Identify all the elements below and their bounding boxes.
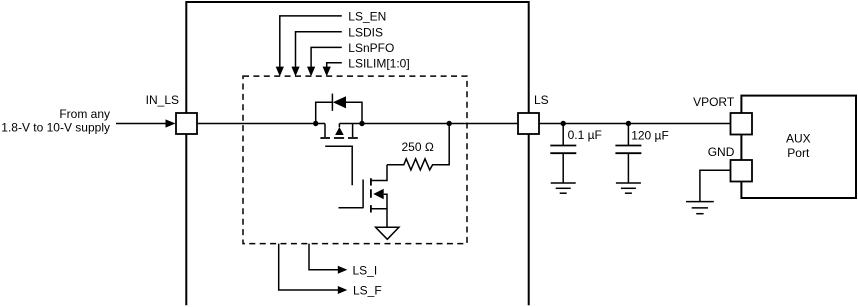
svg-text:0.1 µF: 0.1 µF	[568, 128, 602, 142]
signal LS_F	[279, 244, 348, 294]
capacitor C2 120 uF	[615, 124, 641, 184]
ground (C2)	[616, 183, 641, 193]
svg-text:VPORT: VPORT	[693, 95, 735, 109]
svg-text:LS: LS	[534, 93, 549, 107]
svg-text:1.8-V to 10-V supply: 1.8-V to 10-V supply	[1, 121, 110, 135]
svg-text:AUX: AUX	[786, 132, 811, 146]
node C1	[561, 121, 566, 126]
Q2 body tie	[384, 194, 387, 227]
svg-text:250 Ω: 250 Ω	[402, 140, 434, 154]
ground (AUX)	[686, 202, 714, 214]
node Q1 drain	[313, 121, 318, 126]
GND pin wire	[700, 170, 731, 201]
svg-text:LS_EN: LS_EN	[348, 10, 386, 24]
Q2 body arrow	[373, 189, 383, 200]
ground (C1)	[551, 183, 576, 193]
svg-text:Port: Port	[787, 146, 810, 160]
resistor 250 ohm	[387, 124, 449, 170]
sense transistor Q2	[339, 165, 388, 227]
Q1 body arrow	[335, 127, 344, 135]
load switch internal block (dashed)	[243, 76, 467, 244]
svg-text:LSnPFO: LSnPFO	[348, 41, 394, 55]
Q2 gate lead	[339, 207, 364, 209]
pin IN_LS	[176, 113, 197, 134]
svg-text:IN_LS: IN_LS	[146, 93, 179, 107]
supply input wire	[116, 123, 166, 125]
pin LS	[518, 113, 539, 134]
body diode D1	[316, 94, 362, 124]
node resistor tap	[447, 121, 452, 126]
IC outline (device boundary)	[186, 2, 528, 305]
signal LSnPFO	[307, 47, 342, 76]
Q2 drain lead	[371, 165, 387, 181]
signal LSILIM[1:0]	[323, 63, 342, 77]
pass transistor Q1	[320, 124, 357, 186]
Q1 source stub	[352, 124, 354, 138]
signal LSDIS	[291, 32, 341, 77]
signal LS_I	[309, 244, 347, 274]
Q2 channel segments	[370, 178, 372, 212]
pin GND	[731, 160, 753, 182]
svg-text:LS_I: LS_I	[353, 263, 378, 277]
svg-text:From any: From any	[59, 107, 110, 121]
node C2	[626, 121, 631, 126]
pin VPORT	[731, 113, 753, 135]
svg-text:LS_F: LS_F	[353, 284, 382, 298]
main rail wire IN_LS to VPORT	[197, 123, 731, 125]
Q1 body tie	[338, 124, 340, 128]
Q2 source lead	[371, 208, 387, 210]
Q2 gate electrode	[362, 180, 364, 209]
node Q1 source	[359, 121, 364, 126]
input arrowhead	[166, 119, 176, 127]
signal LS_EN	[276, 16, 342, 77]
svg-text:LSDIS: LSDIS	[348, 25, 383, 39]
svg-text:GND: GND	[708, 145, 735, 159]
Q1 gate electrode and lead	[325, 146, 352, 185]
Q1 channel segments	[320, 137, 357, 139]
capacitor C1 0.1 uF	[550, 124, 576, 184]
AUX port box	[741, 96, 856, 198]
ground (internal, open triangle)	[376, 227, 399, 239]
svg-text:120 µF: 120 µF	[631, 129, 669, 143]
Q1 drain stub	[324, 124, 326, 138]
svg-text:LSILIM[1:0]: LSILIM[1:0]	[348, 56, 409, 70]
